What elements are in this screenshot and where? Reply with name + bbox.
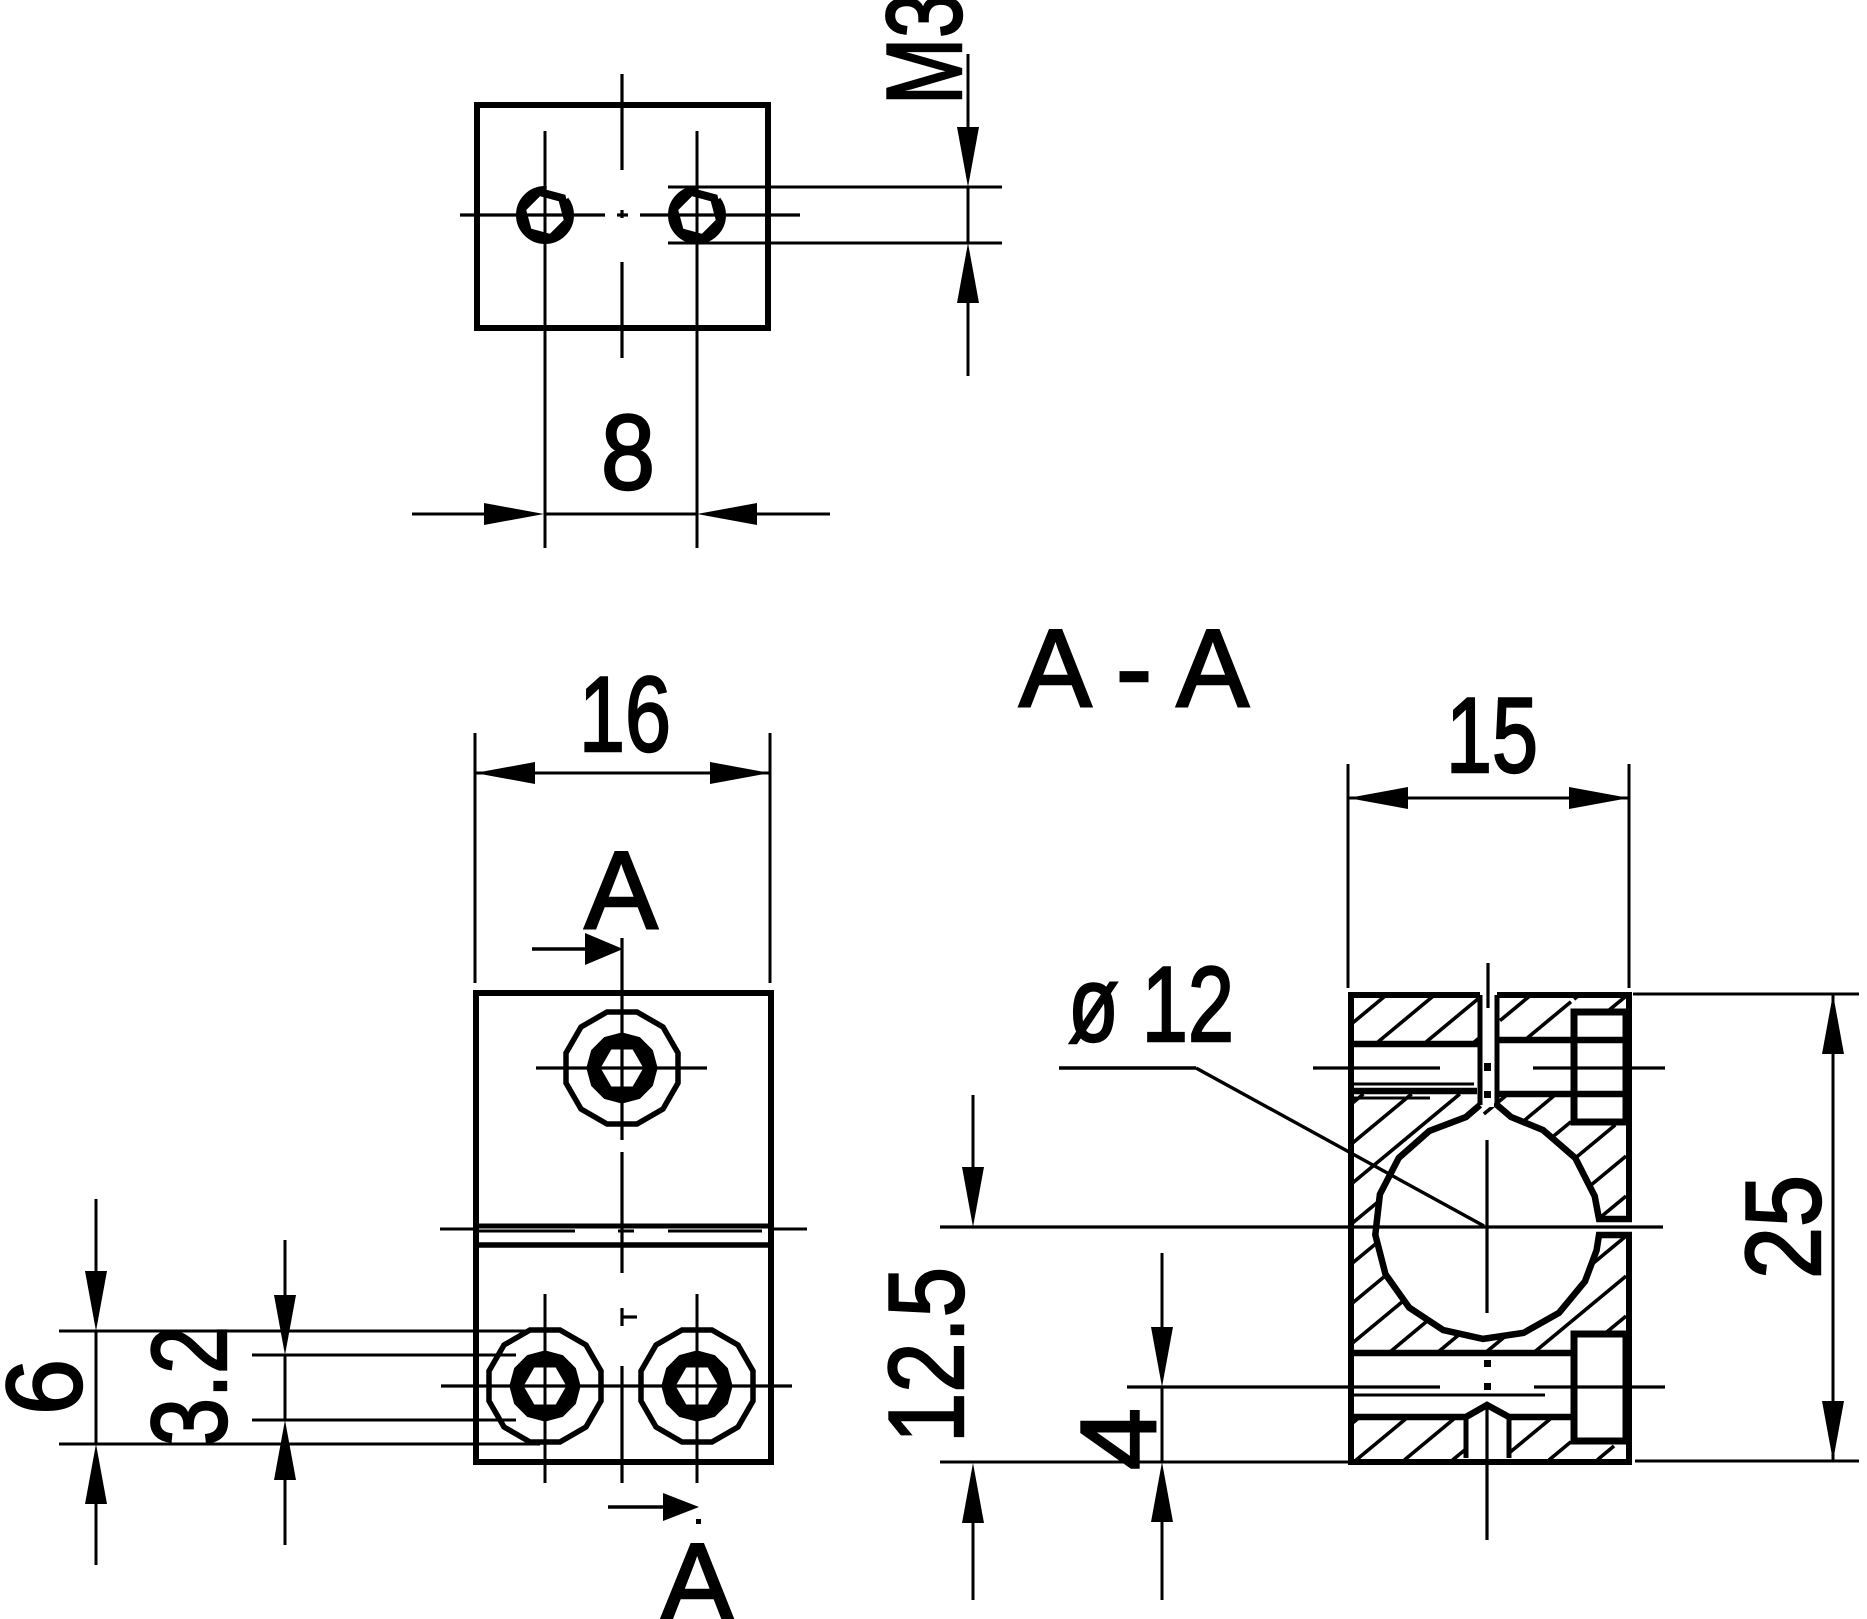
svg-text:8: 8 [601,392,655,512]
svg-text:25: 25 [1723,1175,1843,1279]
svg-text:6: 6 [0,1359,104,1415]
section view: white fills (bore, slot, holes, counterbores) [1378,1118,1596,1336]
svg-text:3.2: 3.2 [129,1326,249,1446]
dimension 16: arrow line with inside arrows [475,762,535,784]
dimension M3: vertical dim line with arrows [967,54,970,130]
section view: slot walls [1478,995,1483,1105]
dimension 6: dim line and arrows [95,1199,98,1271]
svg-text:16: 16 [579,654,671,774]
front view: bottom-left clamping screw socket head [489,1330,601,1442]
svg-text:M3: M3 [864,0,984,105]
dimension 12.5: dim line and arrows [972,1095,975,1167]
svg-text:A: A [584,829,658,952]
section view: body outline [1348,992,1354,1462]
top view: block outline [477,105,768,328]
svg-text:ø 12: ø 12 [1068,944,1234,1064]
section view: bottom screw centerline [1127,1385,1440,1388]
section view: vertical centerline below bore [1485,1140,1488,1313]
section view: top screw hole lines [1351,1041,1480,1048]
dimension 4: dim line and arrows [1161,1253,1164,1327]
top view: vertical centerline [620,74,623,170]
section view: main horizontal centerline [940,1225,1663,1228]
top view: tapped hole M3 left (hex + thread arc) [520,190,571,241]
front view: dim 16 extension lines [474,733,477,983]
front view: split saw cut upper edge [476,1224,771,1229]
dimension 8: arrow line and arrows [412,513,484,516]
front view: vertical centerline (cut line) [620,938,623,1140]
front view: block outline [476,993,771,1462]
section hatching [1351,995,1386,1024]
dimension 25: dim line and arrows [1822,994,1844,1054]
section view: top screw centerline [1313,1066,1440,1069]
section cut arrow bottom [608,1505,664,1508]
svg-text:15: 15 [1446,675,1538,795]
top view: horizontal centerline [460,213,605,216]
section view: bore o12 outline (left arc) [1375,1105,1632,1339]
section view: slot centerline dashes [1486,963,1489,1008]
front view: top clamping screw M3 socket head [566,1012,678,1124]
section view: bottom counterbore box [1574,1334,1626,1441]
dimension 6: extension lines [59,1330,540,1333]
section view: top counterbore box [1574,1012,1626,1122]
section view: bottom saw-cut notch [1464,1417,1469,1458]
section view: bottom screw hole lines [1351,1350,1571,1357]
front view: bottom screws horizontal centerline [441,1384,792,1387]
top view: tapped hole M3 right (hex + thread arc) [672,190,723,241]
svg-text:12.5: 12.5 [866,1267,986,1443]
dimension o12: leader line [1059,1066,1196,1069]
dimension 3.2: extension lines [252,1354,516,1357]
section view: bore o12 outline (right arc) [1497,1105,1632,1219]
front view: split gap thin lines [440,1228,474,1231]
front view: split saw cut lower edge [476,1242,771,1248]
front view: bottom-right clamping screw socket head [641,1330,753,1442]
svg-text:A - A: A - A [1019,607,1250,730]
front view: top screw horizontal centerline [536,1066,707,1069]
top view: hole centerlines / extension lines for dim 8 [544,131,547,548]
svg-text:A: A [660,1521,734,1619]
dimension 15: extension lines [1347,764,1350,988]
dimension 15: arrow line [1348,787,1408,809]
dimension 12.5: bottom extension line [940,1461,1348,1464]
svg-text:4: 4 [1058,1408,1178,1470]
dimension 25: extension lines [1633,993,1859,996]
dimension M3: extension lines from hole tangents [668,186,1002,189]
section cut arrow top [532,947,589,950]
dimension 3.2: dim line and arrows [284,1240,287,1295]
front view: bottom screws vertical centerlines [544,1294,547,1483]
